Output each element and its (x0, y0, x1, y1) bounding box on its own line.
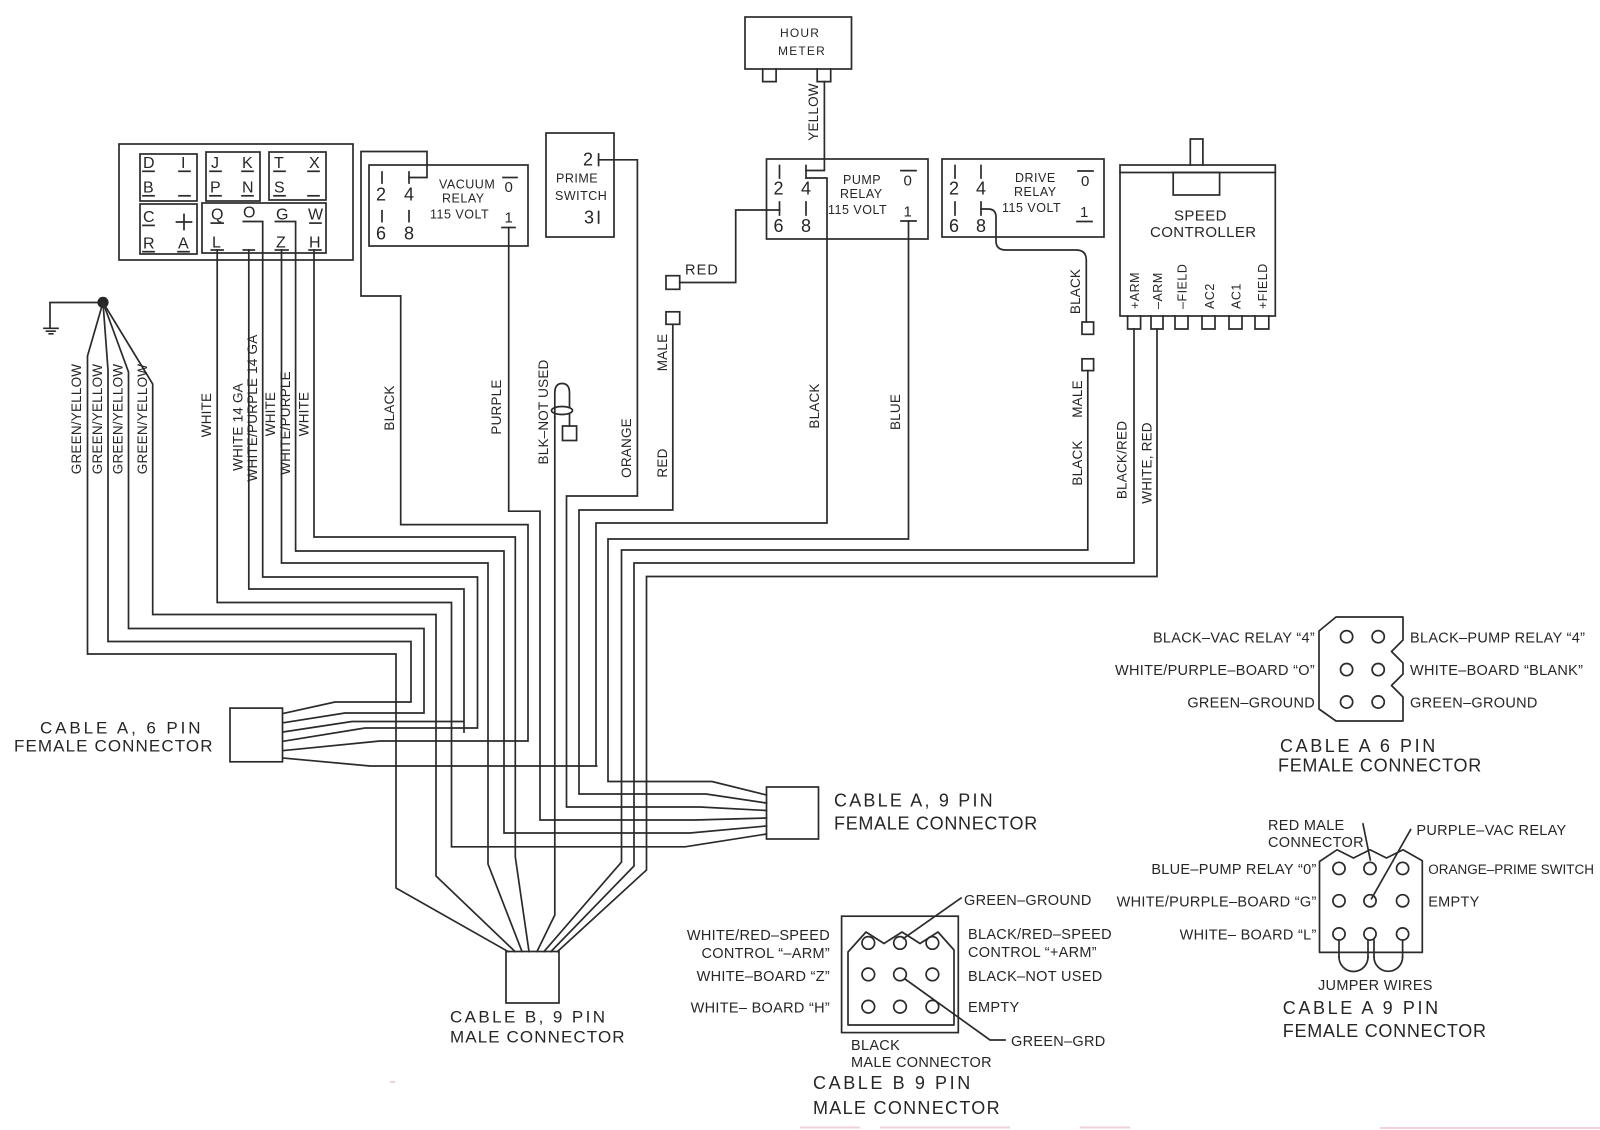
controller speed controller box (1120, 165, 1275, 316)
jumper wire arc 2 (1374, 957, 1403, 971)
svg-text:CABLE A, 9 PIN: CABLE A, 9 PIN (834, 791, 995, 811)
svg-text:WHITE/PURPLE–BOARD “O”: WHITE/PURPLE–BOARD “O” (1115, 663, 1315, 679)
wire BLACK from vacuum relay (283, 296, 528, 751)
terminal board sub-box C + R A (140, 204, 197, 254)
connector male connector square (upper) on drive relay wire (1082, 322, 1094, 334)
wire BLUE from pump relay pin 1 (608, 221, 909, 795)
svg-text:PURPLE: PURPLE (489, 379, 504, 434)
svg-text:BLK–NOT USED: BLK–NOT USED (536, 359, 551, 464)
svg-text:CABLE B 9 PIN: CABLE B 9 PIN (813, 1073, 973, 1093)
svg-text:GREEN–GROUND: GREEN–GROUND (964, 893, 1092, 909)
svg-text:BLACK/RED: BLACK/RED (1115, 421, 1130, 499)
svg-text:I: I (181, 155, 185, 172)
terminal blk-not-used insulated end (552, 384, 577, 441)
wire BLACK MALE down to cable B (544, 371, 1088, 952)
svg-text:WHITE–BOARD “Z”: WHITE–BOARD “Z” (697, 969, 830, 985)
wire YELLOW from hour meter to pump relay pin 4 (806, 82, 824, 171)
speed controller pin tab AC1 (1229, 283, 1244, 329)
relay K3 drive relay box (942, 159, 1104, 237)
svg-text:WHITE: WHITE (263, 392, 278, 437)
svg-text:RELAY: RELAY (840, 187, 883, 201)
svg-text:AC1: AC1 (1230, 283, 1244, 309)
svg-text:CONTROLLER: CONTROLLER (1150, 224, 1257, 241)
ground (44, 303, 103, 334)
jumper wire stubs (1339, 940, 1403, 957)
svg-text:MALE CONNECTOR: MALE CONNECTOR (813, 1098, 1001, 1118)
svg-text:HOUR: HOUR (780, 26, 820, 40)
drive relay pin 1 (1077, 204, 1092, 222)
pump relay pin 0 (901, 171, 916, 190)
svg-text:WHITE/RED–SPEED: WHITE/RED–SPEED (687, 928, 830, 944)
svg-text:BLACK/RED–SPEED: BLACK/RED–SPEED (968, 927, 1112, 943)
svg-text:1: 1 (505, 210, 513, 227)
svg-text:CONNECTOR: CONNECTOR (1268, 835, 1364, 851)
wire GREEN/YELLOW 4 (103, 302, 515, 951)
svg-text:GREEN/YELLOW: GREEN/YELLOW (135, 364, 150, 474)
svg-text:BLACK: BLACK (382, 385, 397, 430)
wire BLACK from drive relay pin 8 to male connector (981, 209, 1086, 322)
svg-text:L: L (212, 235, 221, 252)
connector male connector square on RED wire (upper) (666, 276, 680, 290)
svg-text:0: 0 (505, 179, 513, 196)
vacuum relay pin 2 (376, 172, 386, 205)
wire WHITE from board H (314, 250, 529, 952)
svg-text:GREEN–GROUND: GREEN–GROUND (1187, 696, 1315, 712)
svg-text:ORANGE: ORANGE (619, 418, 634, 478)
cable B pinout inner shell (848, 932, 954, 1025)
svg-text:WHITE 14 GA: WHITE 14 GA (231, 383, 246, 471)
relay K1 vacuum relay box (369, 165, 528, 246)
svg-text:–FIELD: –FIELD (1176, 264, 1190, 309)
svg-text:CABLE A 9 PIN: CABLE A 9 PIN (1283, 998, 1441, 1018)
svg-text:115 VOLT: 115 VOLT (1002, 201, 1061, 215)
svg-text:2: 2 (774, 179, 784, 199)
speed controller pin tab -ARM (1151, 272, 1165, 329)
hour meter left foot (763, 69, 776, 82)
svg-text:FEMALE CONNECTOR: FEMALE CONNECTOR (1283, 1021, 1487, 1041)
node ground junction dot (97, 297, 108, 308)
svg-text:WHITE– BOARD “H”: WHITE– BOARD “H” (691, 1001, 830, 1017)
label cable B 9 pin male connector (450, 1008, 626, 1047)
svg-text:6: 6 (376, 223, 386, 243)
svg-text:Z: Z (276, 235, 286, 252)
cable A 6 pin shell (1319, 617, 1403, 721)
terminal board outer box (119, 144, 353, 260)
svg-text:RED MALE: RED MALE (1268, 818, 1345, 834)
terminal board sub-box D I B (140, 154, 197, 201)
svg-text:CONTROL “–ARM”: CONTROL “–ARM” (701, 946, 830, 962)
svg-text:B: B (143, 179, 154, 196)
svg-text:PURPLE–VAC RELAY: PURPLE–VAC RELAY (1416, 823, 1566, 839)
svg-text:JUMPER WIRES: JUMPER WIRES (1318, 978, 1433, 994)
wire WHITE/RED from -ARM to cable B (558, 329, 1158, 952)
wire ORANGE from prime switch pin 2 (567, 160, 767, 811)
svg-text:RED: RED (655, 448, 670, 477)
connector cable A 6 pin female box (schematic) (230, 708, 283, 762)
wire vacuum relay pin 4 loop to black feed (361, 152, 427, 297)
svg-text:BLACK: BLACK (1070, 440, 1085, 485)
svg-text:1: 1 (904, 203, 912, 220)
wire WHITE from board Z (282, 250, 523, 952)
leader green-grd from middle pin (905, 979, 1005, 1040)
svg-text:BLACK: BLACK (807, 383, 822, 428)
svg-text:WHITE–BOARD “BLANK”: WHITE–BOARD “BLANK” (1410, 663, 1583, 679)
speed controller shaft (1190, 139, 1203, 165)
svg-text:METER: METER (778, 44, 826, 58)
label PURPLE-VAC RELAY with leader (1372, 823, 1567, 899)
jumper wire arc 1 (1339, 957, 1368, 972)
speed controller pin tab +ARM (1128, 272, 1142, 329)
svg-text:FEMALE CONNECTOR: FEMALE CONNECTOR (1278, 756, 1482, 776)
drive relay pin 2 (949, 166, 959, 199)
svg-text:4: 4 (801, 179, 811, 199)
wire BLK-NOT USED to cable B (537, 417, 555, 952)
svg-text:3: 3 (584, 207, 594, 227)
svg-text:GREEN–GROUND: GREEN–GROUND (1410, 696, 1538, 712)
svg-text:+ARM: +ARM (1128, 272, 1142, 309)
scan artifact dashes (390, 1082, 1600, 1128)
terminal board sub-box J K P N (206, 152, 260, 201)
label RED MALE CONNECTOR with leader (1268, 818, 1370, 860)
svg-text:WHITE: WHITE (297, 392, 312, 437)
svg-text:4: 4 (976, 179, 986, 199)
svg-text:BLACK–NOT USED: BLACK–NOT USED (968, 969, 1102, 985)
speed controller pin tab -FIELD (1175, 264, 1190, 329)
label cable A 9 pin female connector (834, 791, 1038, 834)
svg-text:FEMALE CONNECTOR: FEMALE CONNECTOR (834, 814, 1038, 834)
svg-text:CABLE A, 6 PIN: CABLE A, 6 PIN (40, 719, 203, 738)
svg-text:A: A (178, 235, 189, 252)
svg-text:X: X (309, 155, 320, 172)
svg-text:GREEN–GRD: GREEN–GRD (1011, 1034, 1106, 1050)
drive relay pin 6 (949, 202, 959, 236)
connector male connector square on RED wire (lower) (666, 312, 680, 325)
svg-text:0: 0 (1081, 173, 1089, 190)
label BLACK MALE CONNECTOR (under box) (851, 1038, 992, 1071)
svg-text:RED: RED (685, 263, 719, 279)
svg-text:WHITE/PURPLE–BOARD “G”: WHITE/PURPLE–BOARD “G” (1117, 895, 1317, 911)
svg-text:DRIVE: DRIVE (1015, 171, 1056, 185)
svg-text:FEMALE CONNECTOR: FEMALE CONNECTOR (14, 737, 214, 756)
speed controller pin tab +FIELD (1255, 263, 1270, 329)
svg-text:WHITE– BOARD “L”: WHITE– BOARD “L” (1180, 928, 1317, 944)
svg-text:J: J (211, 155, 219, 172)
meter hour meter box (745, 17, 852, 69)
wire RED down to cable A 9 pin (579, 324, 767, 803)
svg-text:CABLE A 6 PIN: CABLE A 6 PIN (1280, 736, 1438, 756)
svg-text:2: 2 (949, 179, 959, 199)
speed controller pin tab AC2 (1202, 283, 1217, 329)
pump relay pin 8 (801, 202, 811, 236)
svg-text:WHITE/PURPLE 14 GA: WHITE/PURPLE 14 GA (245, 335, 260, 482)
relay K2 pump relay box (767, 159, 929, 239)
svg-text:YELLOW: YELLOW (806, 83, 821, 141)
svg-text:AC2: AC2 (1203, 283, 1217, 309)
switch prime switch box (546, 133, 614, 237)
svg-text:S: S (274, 179, 285, 196)
svg-text:8: 8 (801, 216, 811, 236)
connector cable B 9 pin male box (schematic) (506, 952, 559, 1004)
label WHITE/RED-SPEED CONTROL -ARM (687, 928, 830, 962)
svg-text:8: 8 (976, 216, 986, 236)
wire WHITE 14 GA from board blank (249, 250, 464, 732)
wire GREEN/YELLOW 3 (103, 302, 424, 722)
svg-text:PRIME: PRIME (556, 171, 598, 185)
cable A 9 pin circles (1333, 862, 1409, 940)
svg-text:BLACK–PUMP RELAY “4”: BLACK–PUMP RELAY “4” (1410, 631, 1585, 647)
svg-text:2: 2 (376, 185, 386, 205)
wire WHITE/PURPLE from board G bracket (275, 222, 766, 834)
svg-text:WHITE, RED: WHITE, RED (1140, 422, 1155, 504)
vacuum relay pin 6 (376, 211, 386, 244)
svg-text:CONTROL “+ARM”: CONTROL “+ARM” (968, 945, 1097, 961)
svg-text:P: P (210, 179, 221, 196)
svg-text:T: T (274, 155, 284, 172)
svg-text:GREEN/YELLOW: GREEN/YELLOW (90, 364, 105, 474)
vacuum relay pin 4 (404, 172, 414, 205)
svg-text:MALE: MALE (1070, 380, 1085, 418)
svg-text:8: 8 (404, 223, 414, 243)
leader green-ground to top middle pin (904, 898, 962, 939)
drive relay pin 4 (976, 166, 986, 199)
title CABLE A 9 PIN FEMALE CONNECTOR (1283, 998, 1487, 1041)
svg-text:C: C (143, 209, 155, 226)
svg-text:K: K (242, 155, 253, 172)
wire GREEN/YELLOW 1 (88, 302, 509, 951)
svg-text:Q: Q (211, 207, 223, 224)
terminal board sub-box T X S (269, 152, 326, 200)
svg-text:MALE: MALE (655, 334, 670, 372)
svg-text:N: N (242, 179, 254, 196)
vacuum relay pin 1 (502, 210, 515, 228)
svg-text:6: 6 (949, 216, 959, 236)
wire GREEN/YELLOW 2 (103, 302, 411, 713)
wire PURPLE from vacuum relay pin 1 (509, 228, 767, 821)
svg-text:EMPTY: EMPTY (1428, 895, 1479, 911)
label cable A 6 pin female connector (14, 719, 214, 756)
svg-text:RELAY: RELAY (1014, 185, 1057, 199)
svg-text:SWITCH: SWITCH (555, 189, 607, 203)
cable B pinout pin circles (862, 937, 939, 1013)
svg-text:VACUUM: VACUUM (439, 178, 495, 192)
svg-text:MALE CONNECTOR: MALE CONNECTOR (851, 1055, 992, 1071)
svg-text:BLUE: BLUE (888, 394, 903, 430)
svg-text:EMPTY: EMPTY (968, 1000, 1019, 1016)
wire BLACK from pump relay pin 4 (283, 178, 827, 766)
cable A 6 pin circles (1341, 631, 1385, 709)
svg-text:R: R (143, 235, 155, 252)
svg-text:CABLE B, 9 PIN: CABLE B, 9 PIN (450, 1008, 607, 1027)
svg-text:RELAY: RELAY (442, 192, 485, 206)
svg-text:BLACK–VAC RELAY “4”: BLACK–VAC RELAY “4” (1153, 631, 1315, 647)
svg-text:2: 2 (583, 149, 593, 169)
svg-text:BLACK: BLACK (851, 1038, 900, 1054)
drive relay pin 8 (976, 202, 986, 236)
drive relay pin 0 (1078, 171, 1093, 190)
pump relay pin 4 (801, 166, 811, 199)
cable A 9 pin shell (1320, 850, 1423, 953)
svg-text:0: 0 (904, 172, 912, 189)
vacuum relay pin 0 (503, 178, 517, 197)
svg-text:WHITE: WHITE (199, 393, 214, 438)
svg-text:4: 4 (404, 185, 414, 205)
svg-text:PUMP: PUMP (843, 173, 881, 187)
svg-text:115 VOLT: 115 VOLT (828, 203, 887, 217)
wire BLACK/RED from +ARM to cable B (551, 329, 1134, 952)
svg-text:+FIELD: +FIELD (1256, 263, 1270, 309)
svg-text:1: 1 (1080, 204, 1088, 221)
svg-text:BLACK: BLACK (1068, 269, 1083, 314)
svg-text:SPEED: SPEED (1174, 208, 1227, 225)
svg-text:ORANGE–PRIME SWITCH: ORANGE–PRIME SWITCH (1428, 862, 1594, 877)
title CABLE A 6 PIN FEMALE CONNECTOR (1278, 736, 1482, 776)
svg-text:MALE CONNECTOR: MALE CONNECTOR (450, 1028, 626, 1047)
connector cable A 9 pin female box (schematic) (767, 787, 819, 839)
svg-text:W: W (308, 207, 324, 224)
title CABLE B 9 PIN MALE CONNECTOR (813, 1073, 1001, 1118)
svg-text:BLUE–PUMP RELAY “0”: BLUE–PUMP RELAY “0” (1151, 862, 1316, 878)
pump relay pin 2 (774, 166, 784, 199)
svg-text:WHITE/PURPLE: WHITE/PURPLE (278, 371, 293, 475)
svg-text:H: H (309, 235, 321, 252)
svg-text:–ARM: –ARM (1151, 272, 1165, 309)
svg-text:D: D (143, 155, 155, 172)
svg-text:GREEN/YELLOW: GREEN/YELLOW (111, 364, 126, 474)
hour meter right foot (817, 69, 831, 82)
wire RED jumper from square to pump relay pin 6 (680, 210, 780, 283)
terminal board sub-box Q O G W L Z H (202, 203, 326, 253)
label BLACK/RED-SPEED CONTROL +ARM (968, 927, 1112, 961)
pump relay pin 1 (901, 203, 916, 221)
svg-text:O: O (243, 205, 255, 222)
cable B pinout outer box (842, 916, 959, 1032)
wire WHITE from board L (217, 250, 766, 847)
svg-text:115 VOLT: 115 VOLT (430, 208, 489, 222)
connector male connector square (lower) on drive relay wire (1082, 359, 1094, 371)
svg-text:GREEN/YELLOW: GREEN/YELLOW (69, 364, 84, 474)
pump relay pin 6 (774, 202, 784, 236)
wire WHITE/PURPLE 14 GA from board O bracket (243, 222, 477, 742)
vacuum relay pin 8 (404, 211, 414, 244)
svg-text:6: 6 (774, 216, 784, 236)
